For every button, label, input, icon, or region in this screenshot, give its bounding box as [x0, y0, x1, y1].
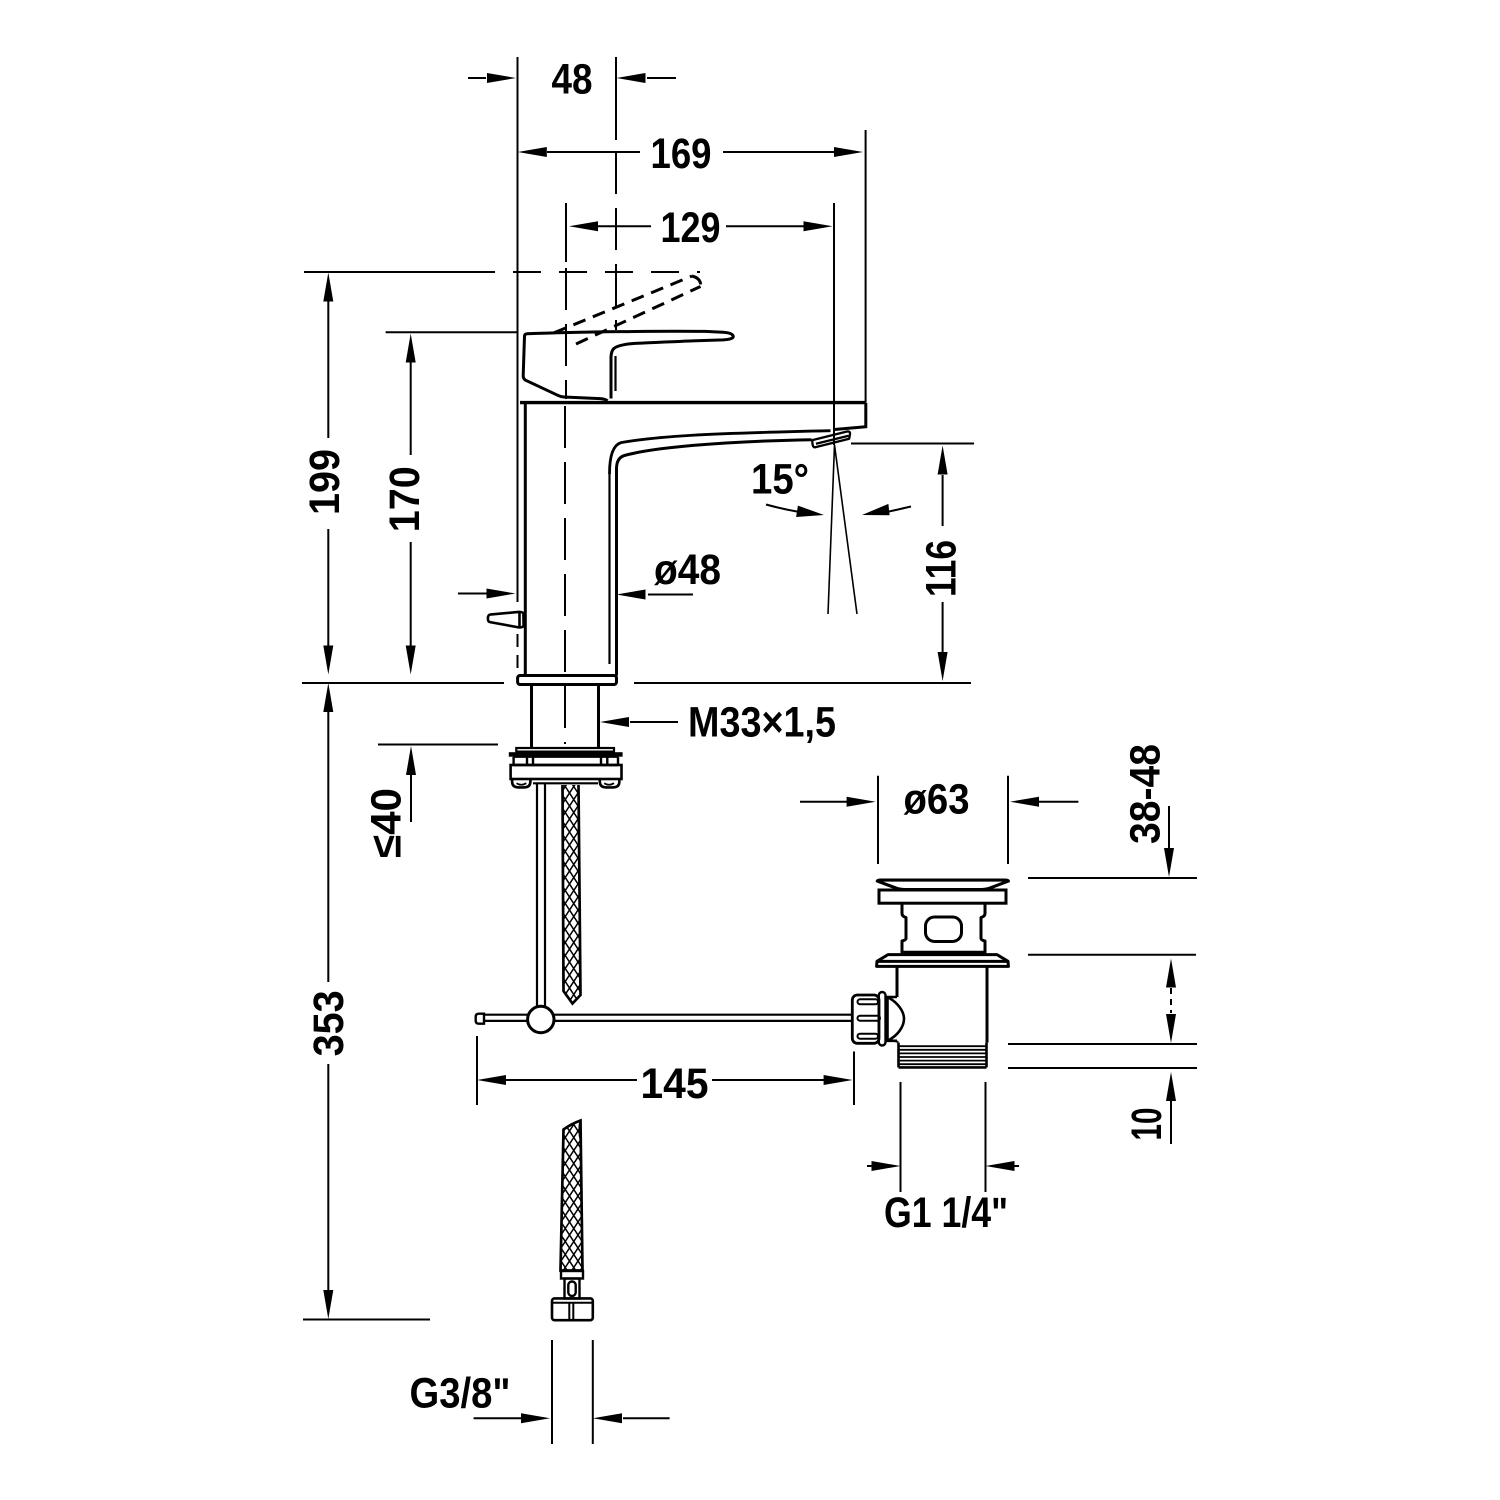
dim G1 1/4 — [867, 1082, 1019, 1192]
right reference lines — [1008, 878, 1197, 1068]
spout underside inner — [608, 474, 610, 664]
svg-text:170: 170 — [381, 466, 429, 532]
hose ferrule — [561, 1271, 583, 1299]
dim 145 — [477, 1036, 854, 1105]
DIMENSION TEXTS VERTICAL (rotated) — [301, 449, 1171, 1141]
drain lower flange — [877, 955, 1009, 967]
svg-text:169: 169 — [651, 130, 712, 178]
drain neck window — [926, 917, 962, 942]
dim 170 — [386, 332, 518, 674]
svg-text:145: 145 — [641, 1060, 709, 1108]
drain body — [897, 966, 987, 1042]
braided hose lower — [561, 1121, 583, 1271]
pop-up rod vertical — [537, 784, 545, 1009]
dim 129 — [569, 221, 833, 231]
drain stopper cap — [877, 880, 1008, 889]
svg-text:116: 116 — [918, 540, 966, 597]
svg-text:G3/8": G3/8" — [410, 1370, 511, 1418]
svg-text:≤40: ≤40 — [363, 788, 411, 858]
svg-text:G1 1/4": G1 1/4" — [884, 1189, 1008, 1237]
base plate — [518, 676, 617, 685]
drain neck with notches — [902, 903, 985, 952]
svg-text:48: 48 — [552, 56, 593, 104]
dim 38-48 — [1164, 806, 1174, 877]
dim 199 — [304, 272, 700, 675]
DIMENSION TEXTS HORIZONTAL — [410, 56, 1009, 1418]
dim o63 — [800, 776, 1078, 864]
faucet handle solid — [523, 331, 733, 401]
dim 169 — [518, 147, 863, 157]
extension lines top — [518, 57, 866, 744]
svg-text:353: 353 — [305, 990, 353, 1056]
mounting surface line — [302, 682, 971, 684]
svg-text:ø63: ø63 — [904, 776, 970, 824]
svg-text:10: 10 — [1123, 1108, 1171, 1141]
dim clamp (unlabeled) — [1166, 959, 1176, 1044]
dim G3/8 — [474, 1340, 670, 1444]
svg-text:ø48: ø48 — [654, 546, 721, 594]
pop-up rod horizontal — [476, 1014, 853, 1024]
dim 48 top — [468, 73, 676, 83]
dim M33 arrow — [600, 717, 678, 727]
aerator — [812, 431, 850, 447]
faucet body top plate — [520, 401, 866, 404]
drain side port — [886, 997, 905, 1041]
column left edge — [524, 404, 527, 676]
rod ball joint — [528, 1006, 554, 1032]
svg-text:38-48: 38-48 — [1122, 744, 1170, 844]
dim o48 arrows — [458, 589, 693, 600]
drain knurled nut — [852, 992, 885, 1046]
spout underside outer — [617, 440, 812, 676]
pop-up knob — [488, 612, 524, 628]
dim le40 — [378, 745, 498, 823]
dim 10 — [1166, 1072, 1176, 1144]
drain thread G1 1/4 — [899, 1043, 987, 1068]
svg-text:199: 199 — [301, 449, 349, 515]
dim 116 — [851, 444, 974, 682]
svg-text:15°: 15° — [751, 456, 809, 504]
rosette stack — [509, 748, 623, 787]
hose nut G3/8 — [552, 1298, 593, 1320]
svg-text:129: 129 — [661, 204, 721, 252]
dim 353 — [303, 683, 430, 1320]
svg-text:M33×1,5: M33×1,5 — [688, 699, 836, 747]
braided hose upper — [563, 785, 581, 1004]
drain upper flange — [879, 890, 1006, 903]
dim 15deg stream lines and arc arrows — [766, 445, 911, 614]
shank — [532, 685, 599, 749]
faucet lever raised (dashed) — [554, 276, 701, 344]
spout tip block — [833, 403, 866, 430]
